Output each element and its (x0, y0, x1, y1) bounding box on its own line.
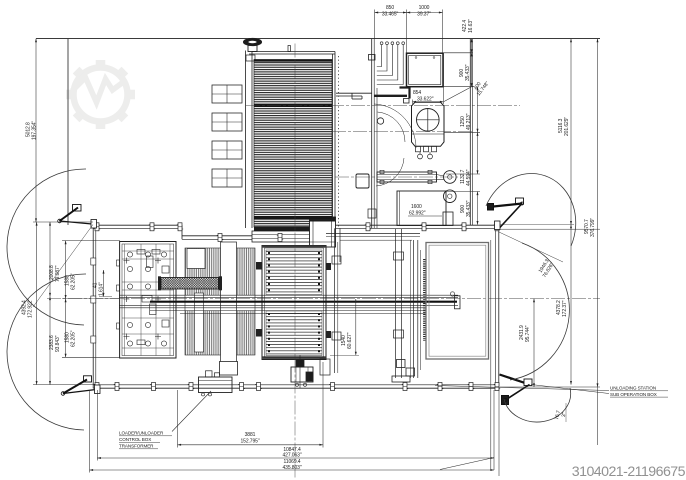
svg-text:33.465": 33.465" (382, 12, 399, 18)
svg-text:850: 850 (386, 5, 394, 11)
svg-text:TRANSFORMER: TRANSFORMER (119, 444, 154, 449)
svg-text:201.629": 201.629" (564, 117, 570, 136)
svg-text:152.795": 152.795" (240, 439, 259, 445)
svg-text:35.433": 35.433" (466, 200, 472, 217)
svg-text:39.37": 39.37" (417, 12, 431, 18)
svg-text:1.614": 1.614" (99, 282, 105, 296)
svg-text:CONTROL BOX: CONTROL BOX (119, 437, 151, 442)
svg-text:SUB OPERATION BOX: SUB OPERATION BOX (610, 392, 657, 397)
svg-text:62.205": 62.205" (71, 330, 77, 347)
svg-text:79.087": 79.087" (55, 265, 61, 282)
svg-text:62.992": 62.992" (409, 211, 426, 217)
svg-text:172.922": 172.922" (28, 299, 34, 318)
svg-text:854: 854 (413, 90, 421, 96)
svg-text:16.63": 16.63" (468, 19, 474, 33)
svg-text:93.843": 93.843" (55, 335, 61, 352)
svg-text:62.205": 62.205" (71, 273, 77, 290)
svg-text:435.803": 435.803" (282, 465, 301, 471)
svg-text:60.627": 60.627" (347, 332, 353, 349)
svg-text:172.37": 172.37" (562, 300, 568, 317)
svg-text:44.594": 44.594" (466, 169, 472, 186)
svg-text:LOADER/UNLOADER: LOADER/UNLOADER (119, 431, 164, 436)
svg-text:3104021-21196675: 3104021-21196675 (572, 464, 686, 480)
svg-text:95.744": 95.744" (525, 325, 531, 342)
svg-text:33.622": 33.622" (417, 97, 434, 103)
svg-text:35.433": 35.433" (465, 64, 471, 81)
svg-text:427.063": 427.063" (282, 453, 301, 459)
svg-text:3881: 3881 (245, 432, 256, 438)
svg-text:376.799": 376.799" (590, 218, 596, 237)
svg-text:197.354": 197.354" (32, 121, 38, 140)
svg-text:1000: 1000 (419, 5, 430, 11)
svg-text:UNLOADING STATION: UNLOADING STATION (610, 386, 656, 391)
svg-text:49.213": 49.213" (466, 113, 472, 130)
svg-text:1600: 1600 (411, 204, 422, 210)
